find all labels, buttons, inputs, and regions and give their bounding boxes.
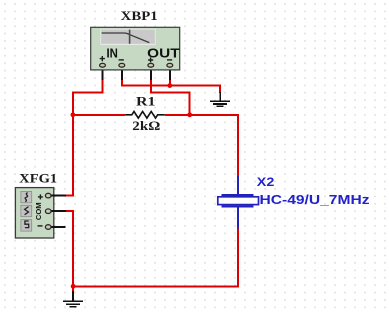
- XBP1 pin stub OUT-: [169, 67, 171, 80]
- wire XFG1 COM to bottom rail: [66, 211, 73, 286]
- ground G1 top right: [210, 92, 230, 106]
- resistor R1: [125, 112, 165, 119]
- ground G2 bottom left: [63, 291, 83, 307]
- function generator XFG1 body: [15, 188, 53, 238]
- XFG1 pin stub COM: [51, 210, 67, 212]
- crystal X2 pin top: [237, 176, 239, 194]
- XFG1 terminal COM: [45, 209, 51, 214]
- XFG1 terminal minus: [45, 225, 51, 230]
- wire bottom ground stub: [72, 286, 74, 291]
- svg-text:COM: COM: [34, 202, 43, 220]
- terminal OUT+: [148, 63, 154, 67]
- svg-text:OUT: OUT: [147, 46, 179, 61]
- XBP1 pin stub IN+: [102, 67, 104, 80]
- wire OUT- stub: [169, 80, 171, 86]
- bode plotter cursor line: [129, 30, 131, 44]
- svg-text:X2: X2: [257, 175, 275, 189]
- XFG1 minus mark: [38, 225, 43, 227]
- wire OUT+ to R1 right: [151, 80, 190, 115]
- XBP1 pin stub OUT+: [150, 67, 152, 80]
- svg-text:R1: R1: [136, 93, 156, 108]
- terminal OUT-: [167, 63, 173, 67]
- XBP1 pin stub IN-: [121, 67, 123, 80]
- junction OUT- / ground: [167, 83, 172, 88]
- XFG1 pin stub minus: [51, 226, 66, 228]
- wire IN- to ground net: [122, 80, 220, 93]
- crystal X2 top plate: [222, 194, 254, 196]
- terminal IN-: [119, 63, 125, 67]
- wire net IN+ to XFG1 plus (left rail): [66, 80, 103, 196]
- sine wave icon: [25, 193, 28, 202]
- svg-text:XBP1: XBP1: [121, 8, 158, 23]
- svg-text:IN: IN: [107, 46, 118, 61]
- crystal X2 pin bottom: [237, 207, 239, 228]
- triangle wave icon: [25, 207, 29, 215]
- polarity marks XBP1: [100, 56, 173, 62]
- crystal X2 bottom plate: [222, 205, 254, 207]
- crystal X2 body: [218, 197, 259, 205]
- junction R1 right / OUT+: [187, 112, 192, 117]
- svg-text:XFG1: XFG1: [19, 170, 57, 185]
- terminal IN+: [100, 63, 106, 67]
- XFG1 pin stub plus: [51, 195, 67, 197]
- wire R1 left: [73, 114, 125, 116]
- svg-text:2kΩ: 2kΩ: [132, 118, 160, 133]
- bode plotter response curve: [102, 33, 150, 43]
- square wave icon: [25, 221, 29, 228]
- wire R1 right to crystal top: [165, 115, 238, 177]
- junction R1 left / left rail: [71, 112, 76, 117]
- wire crystal bottom to bottom rail: [73, 228, 238, 286]
- bode plotter U1 XBP1 body: [91, 27, 180, 70]
- XFG1 terminal plus: [45, 193, 51, 198]
- junction bottom rail / ground: [71, 284, 76, 289]
- XFG1 plus mark: [38, 194, 43, 199]
- svg-text:HC-49/U_7MHz: HC-49/U_7MHz: [260, 193, 370, 207]
